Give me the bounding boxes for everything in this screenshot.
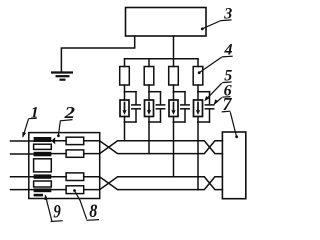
svg-text:9: 9 [53,201,61,222]
svg-text:8: 8 [89,200,97,222]
